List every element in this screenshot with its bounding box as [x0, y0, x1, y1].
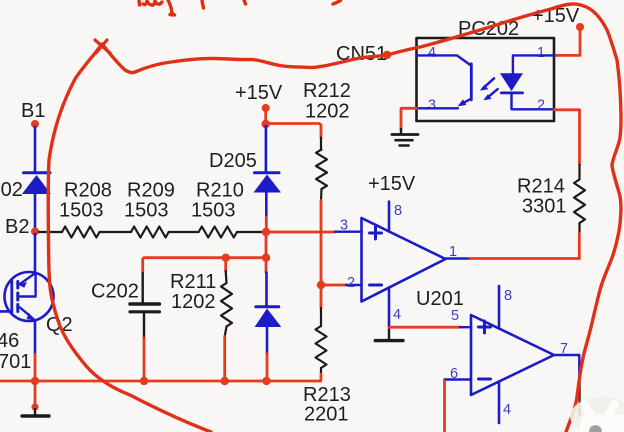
ground PC202 — [392, 129, 418, 146]
resistor R210 — [191, 180, 244, 238]
wire PC202 pin 3 to ground — [401, 108, 417, 129]
svg-text:R208: R208 — [64, 180, 112, 202]
wire R212 bottom to pin2 node — [320, 200, 323, 283]
power +15V (op-amp pin 8) — [368, 173, 416, 232]
wire D202 anode to B2 — [34, 194, 37, 228]
svg-text:1503: 1503 — [59, 200, 104, 222]
wire C202 bottom to bus — [143, 338, 146, 378]
watermark bottom right — [570, 397, 624, 432]
svg-text:C202: C202 — [91, 281, 139, 303]
resistor R208 — [59, 180, 112, 238]
svg-text:4: 4 — [393, 307, 401, 323]
wire R209 to R210 — [169, 231, 199, 233]
junction D206/bus — [262, 377, 270, 385]
wire node B down to D206 cathode — [265, 259, 268, 272]
wire pin2 node to op-amp pin 2 — [325, 284, 346, 287]
svg-text:1503: 1503 — [191, 200, 236, 222]
svg-text:8: 8 — [504, 288, 512, 304]
svg-text:B2: B2 — [5, 216, 29, 238]
node B1 — [21, 100, 45, 128]
optocoupler PC202 — [417, 18, 555, 121]
svg-text:1: 1 — [449, 244, 457, 260]
power +15V (D205 column) — [235, 82, 283, 112]
resistor R209 — [124, 180, 175, 238]
diode D205 — [209, 150, 281, 193]
wire B1 to D202 cathode — [34, 127, 37, 172]
junction pin2 node — [317, 281, 325, 289]
wire bottom bus — [0, 380, 321, 383]
wire +15V to PC202 pin 1 — [554, 29, 580, 55]
svg-text:R212: R212 — [303, 80, 351, 102]
wire R213 bottom to bus — [319, 374, 322, 381]
svg-text:U201: U201 — [416, 288, 464, 310]
svg-text:2201: 2201 — [304, 404, 349, 426]
pin 8 U201B — [499, 286, 512, 329]
wire node A down to node B — [265, 234, 268, 256]
wire R214 bottom to pin 1 output — [578, 234, 581, 259]
resistor R214 — [517, 165, 585, 234]
pin 7 output wire — [554, 341, 580, 415]
svg-text:D202: D202 — [0, 179, 23, 201]
junction Q2 emitter / bottom bus — [31, 377, 39, 385]
svg-text:3: 3 — [340, 218, 348, 234]
svg-text:8: 8 — [394, 203, 402, 219]
resistor R211 — [170, 259, 232, 337]
wire R211 bottom to bus — [223, 337, 226, 379]
junction +15V branch — [262, 120, 270, 128]
svg-text:R209: R209 — [127, 180, 175, 202]
wire R208 to R209 — [100, 231, 132, 233]
diode D202 — [0, 173, 51, 201]
wire pin2 node down to R213 — [320, 287, 323, 308]
wire D206 anode to bus — [266, 327, 269, 354]
svg-text:1: 1 — [537, 45, 545, 61]
wire R210 to node A — [237, 231, 262, 233]
junction R211/bus — [221, 377, 229, 385]
red annotation: left loop branch — [48, 44, 211, 432]
pin 6 wire — [445, 366, 472, 432]
svg-text:1202: 1202 — [305, 101, 350, 123]
wire +15V to D205 cathode — [265, 126, 268, 171]
svg-text:3301: 3301 — [522, 196, 567, 218]
wire bus stub to ground — [34, 383, 37, 405]
power +15V (top right) — [532, 5, 584, 31]
svg-text:1202: 1202 — [171, 291, 216, 313]
svg-text:D205: D205 — [209, 150, 257, 172]
svg-text:1503: 1503 — [124, 200, 169, 222]
svg-text:R211: R211 — [170, 271, 216, 293]
junction node A — [262, 228, 270, 236]
node CN51 — [336, 43, 391, 65]
pin 1 output wire — [446, 244, 580, 260]
op-amp U201A — [362, 218, 446, 302]
svg-text:4: 4 — [428, 45, 436, 61]
wire PC202 pin 2 to R214 — [554, 110, 580, 165]
svg-text:2: 2 — [347, 275, 355, 291]
pin 4 wire and ground — [375, 288, 403, 341]
svg-text:7: 7 — [560, 341, 568, 357]
wire D205 anode to node A — [265, 193, 268, 218]
diode D206 — [255, 307, 282, 327]
wire B2 to Q2 collector — [34, 234, 37, 273]
wire node A to op-amp pin 3 — [270, 231, 335, 234]
wire Q2 gate stub — [0, 310, 10, 313]
svg-text:R210: R210 — [196, 180, 244, 202]
svg-text:5: 5 — [451, 308, 459, 324]
svg-text:46: 46 — [0, 330, 19, 352]
node B2 — [5, 216, 39, 238]
svg-text:+15V: +15V — [235, 82, 283, 104]
wire +15V down — [264, 110, 267, 124]
svg-text:701: 701 — [0, 351, 31, 373]
resistor R212 — [303, 80, 351, 200]
red annotation: handwriting top — [139, 0, 341, 15]
svg-text:+15V: +15V — [368, 173, 416, 195]
svg-text:6: 6 — [450, 366, 458, 382]
wire B2 to R208 — [39, 231, 62, 233]
junction C202/bus — [140, 377, 148, 385]
wire pin4 node to U201B pin 5 — [389, 326, 460, 329]
svg-text:B1: B1 — [21, 100, 45, 122]
wire top rail to C202 and R211 — [143, 258, 264, 273]
svg-text:3: 3 — [428, 98, 436, 114]
transistor Q2 — [0, 272, 73, 373]
pin 4 U201B — [499, 382, 511, 424]
wire branch to R212 — [268, 124, 321, 138]
resistor R213 — [303, 308, 351, 426]
svg-text:R214: R214 — [517, 176, 565, 198]
junction node B (C202/R211 top rail) — [262, 254, 270, 262]
svg-text:4: 4 — [503, 402, 511, 418]
junction R211 top — [222, 254, 230, 262]
red annotation: X mark — [95, 40, 110, 53]
wire Q2 emitter — [34, 321, 37, 354]
svg-text:2: 2 — [537, 98, 545, 114]
ground bottom-left — [22, 409, 49, 416]
op-amp U201B — [416, 288, 554, 395]
capacitor C202 — [91, 273, 159, 338]
